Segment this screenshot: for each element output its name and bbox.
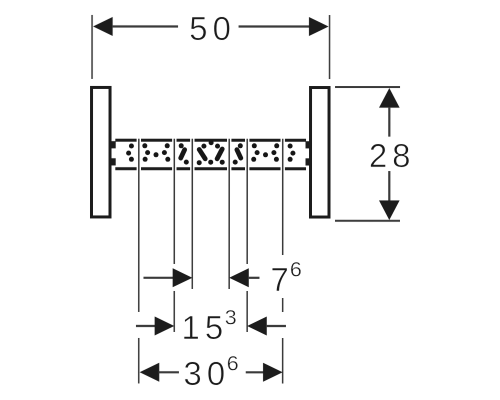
- knurl dots segment 1: [126, 143, 134, 161]
- dimension 50: right arrowhead: [309, 17, 329, 36]
- dimension 28: top extension line: [335, 86, 400, 88]
- dimension 28: down arrowhead: [379, 200, 400, 220]
- division + extension line mid-left (to 15.3 dim): [173, 139, 175, 332]
- svg-text:28: 28: [369, 137, 416, 174]
- dimension 30.6: left arrowhead: [140, 363, 160, 382]
- bar top edge: [115, 139, 306, 142]
- knurl dots segment 6: [251, 143, 279, 162]
- right wall plate: [310, 88, 329, 218]
- dimension 15.3: left tail line: [136, 325, 156, 327]
- knurl dots segment 2: [142, 143, 170, 162]
- left mounting tabs: [110, 141, 116, 165]
- svg-text:153: 153: [181, 305, 236, 346]
- dimension 28: bottom extension line: [335, 220, 400, 222]
- dimension 30.6: right tail line: [246, 371, 264, 373]
- division + extension line mid-right (to 15.3 dim): [246, 139, 248, 332]
- dimension 15.3: left arrowhead: [155, 316, 175, 335]
- bar bottom edge: [115, 167, 306, 170]
- dimension 50: right tail line: [239, 25, 310, 27]
- dimension 28: lower line segment: [388, 171, 390, 202]
- dimension 50: left extension line: [91, 15, 93, 79]
- dimension 15.3: right tail line: [266, 325, 286, 327]
- knurl dots segment 7: [288, 144, 296, 162]
- dimension 15.3: right arrowhead: [247, 316, 267, 335]
- dimension 50: left arrowhead: [93, 17, 113, 36]
- division + extension line far-right (to 30.6 dim): [282, 139, 284, 384]
- division + extension line far-left (to 30.6 dim): [138, 139, 140, 384]
- dimension 28: upper line segment: [388, 107, 390, 137]
- svg-text:306: 306: [183, 351, 238, 392]
- dimension 28: up arrowhead: [379, 88, 400, 108]
- dimension 30.6: left tail line: [158, 371, 179, 373]
- knurl dots segment 4 (center): [197, 140, 225, 165]
- knurl dots segment 3: [179, 143, 189, 164]
- dimension 7.6: right arrowhead: [229, 268, 249, 287]
- division + extension line inner-right (to 7.6 dim): [228, 139, 230, 289]
- dimension 7.6: right tail line: [248, 277, 260, 279]
- left wall plate: [91, 87, 110, 217]
- right mounting tabs: [306, 141, 312, 165]
- dimension 50: left tail line: [112, 25, 178, 27]
- knurl dots segment 5: [233, 143, 243, 164]
- division + extension line inner-left (to 7.6 dim): [191, 139, 193, 289]
- dimension 7.6: left arrowhead: [173, 268, 193, 287]
- svg-text:50: 50: [189, 10, 236, 47]
- dimension 50: right extension line: [329, 15, 331, 79]
- svg-text:76: 76: [270, 258, 301, 299]
- dimension 30.6: right arrowhead: [263, 363, 283, 382]
- dimension 7.6: left tail line: [143, 277, 174, 279]
